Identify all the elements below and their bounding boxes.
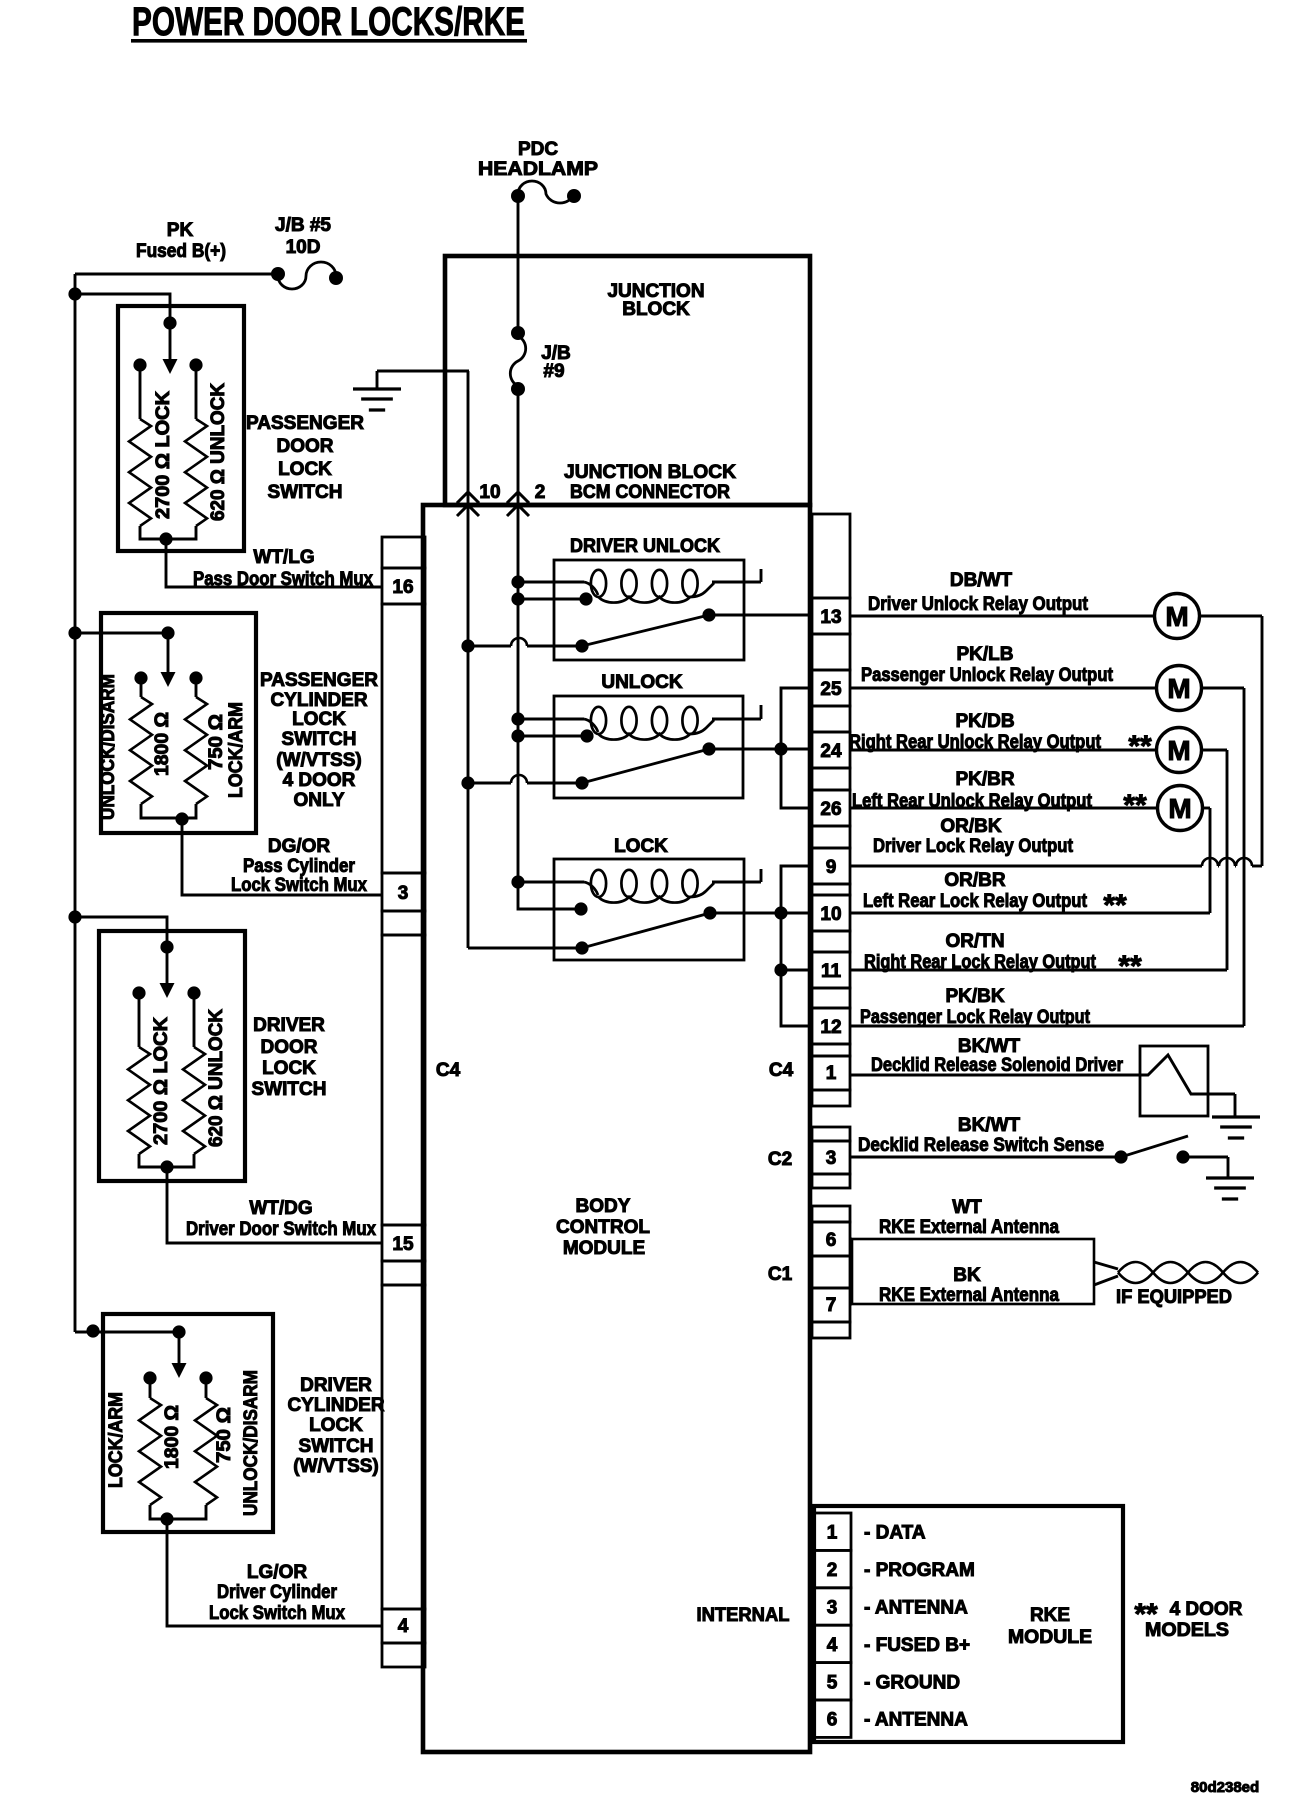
svg-text:10D: 10D: [286, 237, 321, 258]
svg-text:JUNCTION BLOCK: JUNCTION BLOCK: [564, 462, 736, 483]
svg-text:24: 24: [820, 741, 842, 762]
svg-text:CONTROL: CONTROL: [556, 1217, 650, 1238]
svg-text:PK/LB: PK/LB: [957, 644, 1014, 665]
svg-text:DB/WT: DB/WT: [950, 570, 1013, 591]
svg-text:**: **: [1128, 730, 1152, 763]
svg-text:Driver Door Switch Mux: Driver Door Switch Mux: [186, 1219, 376, 1240]
svg-text:DRIVER: DRIVER: [300, 1375, 372, 1396]
svg-text:CYLINDER: CYLINDER: [287, 1395, 384, 1416]
svg-text:LOCK: LOCK: [309, 1415, 363, 1436]
svg-text:3: 3: [398, 883, 409, 904]
svg-text:INTERNAL: INTERNAL: [697, 1605, 790, 1626]
svg-text:**: **: [1123, 789, 1147, 822]
svg-text:LOCK: LOCK: [262, 1058, 316, 1079]
svg-text:13: 13: [820, 607, 841, 628]
svg-text:WT/DG: WT/DG: [249, 1198, 312, 1219]
svg-text:25: 25: [820, 679, 842, 700]
svg-text:POWER DOOR LOCKS/RKE: POWER DOOR LOCKS/RKE: [132, 0, 525, 44]
svg-text:2: 2: [827, 1560, 838, 1581]
svg-text:620 Ω UNLOCK: 620 Ω UNLOCK: [208, 383, 229, 521]
svg-text:UNLOCK/DISARM: UNLOCK/DISARM: [98, 674, 119, 820]
svg-text:SWITCH: SWITCH: [299, 1436, 374, 1457]
svg-text:4: 4: [827, 1635, 838, 1656]
svg-text:DG/OR: DG/OR: [268, 836, 331, 857]
svg-text:Fused B(+): Fused B(+): [136, 241, 226, 262]
svg-text:M: M: [1167, 735, 1190, 766]
svg-text:12: 12: [820, 1017, 841, 1038]
svg-text:10: 10: [479, 482, 500, 503]
svg-text:PK/DB: PK/DB: [955, 711, 1014, 732]
svg-text:620 Ω UNLOCK: 620 Ω UNLOCK: [206, 1009, 227, 1147]
svg-text:J/B #5: J/B #5: [275, 215, 331, 236]
svg-text:- GROUND: - GROUND: [864, 1672, 960, 1693]
svg-text:WT: WT: [952, 1197, 982, 1218]
svg-text:RKE External Antenna: RKE External Antenna: [879, 1217, 1059, 1238]
svg-text:1800 Ω: 1800 Ω: [162, 1405, 183, 1469]
svg-text:SWITCH: SWITCH: [282, 729, 357, 750]
svg-text:4 DOOR: 4 DOOR: [283, 770, 356, 791]
svg-text:3: 3: [827, 1598, 838, 1619]
svg-text:- PROGRAM: - PROGRAM: [864, 1560, 975, 1581]
svg-text:BODY: BODY: [576, 1196, 631, 1217]
svg-text:Lock Switch Mux: Lock Switch Mux: [231, 875, 367, 896]
svg-text:M: M: [1168, 793, 1191, 824]
svg-text:Passenger Unlock Relay Output: Passenger Unlock Relay Output: [861, 665, 1114, 686]
svg-text:BK/WT: BK/WT: [958, 1036, 1021, 1057]
svg-text:6: 6: [827, 1710, 838, 1731]
svg-text:DOOR: DOOR: [261, 1037, 318, 1058]
svg-text:LG/OR: LG/OR: [247, 1562, 307, 1583]
svg-text:6: 6: [826, 1230, 837, 1251]
svg-text:1: 1: [827, 1523, 838, 1544]
svg-text:MODELS: MODELS: [1145, 1620, 1229, 1641]
svg-text:Pass Door Switch Mux: Pass Door Switch Mux: [193, 569, 373, 590]
svg-text:PK: PK: [167, 220, 194, 241]
svg-text:C2: C2: [768, 1149, 792, 1170]
svg-text:10: 10: [820, 904, 841, 925]
svg-text:LOCK/ARM: LOCK/ARM: [226, 702, 247, 798]
svg-text:2700 Ω LOCK: 2700 Ω LOCK: [153, 391, 174, 519]
svg-text:4: 4: [398, 1616, 409, 1637]
svg-text:DRIVER: DRIVER: [253, 1015, 325, 1036]
svg-text:HEADLAMP: HEADLAMP: [478, 159, 598, 180]
svg-text:Decklid Release Solenoid Drive: Decklid Release Solenoid Driver: [871, 1055, 1124, 1076]
svg-text:IF EQUIPPED: IF EQUIPPED: [1116, 1287, 1232, 1308]
svg-text:LOCK/ARM: LOCK/ARM: [106, 1392, 127, 1488]
svg-text:ONLY: ONLY: [293, 790, 344, 811]
svg-text:BK/WT: BK/WT: [958, 1115, 1021, 1136]
svg-text:11: 11: [821, 961, 842, 982]
svg-text:MODULE: MODULE: [1008, 1627, 1092, 1648]
svg-text:(W/VTSS): (W/VTSS): [293, 1456, 379, 1477]
svg-text:BLOCK: BLOCK: [622, 299, 690, 320]
svg-text:- ANTENNA: - ANTENNA: [864, 1598, 968, 1619]
svg-text:7: 7: [826, 1295, 837, 1316]
svg-text:MODULE: MODULE: [563, 1238, 645, 1259]
svg-text:3: 3: [826, 1148, 837, 1169]
svg-text:9: 9: [826, 857, 837, 878]
svg-text:OR/BR: OR/BR: [944, 870, 1006, 891]
svg-text:PASSENGER: PASSENGER: [260, 670, 378, 691]
svg-text:PASSENGER: PASSENGER: [246, 413, 364, 434]
svg-text:CYLINDER: CYLINDER: [270, 690, 367, 711]
svg-text:SWITCH: SWITCH: [268, 482, 343, 503]
svg-text:Driver Lock Relay Output: Driver Lock Relay Output: [873, 836, 1074, 857]
svg-text:750 Ω: 750 Ω: [206, 714, 227, 770]
svg-text:2700 Ω LOCK: 2700 Ω LOCK: [151, 1017, 172, 1145]
svg-text:LOCK: LOCK: [614, 836, 668, 857]
svg-text:5: 5: [827, 1672, 838, 1693]
svg-text:BCM CONNECTOR: BCM CONNECTOR: [570, 482, 730, 503]
svg-text:LOCK: LOCK: [278, 459, 332, 480]
svg-text:- ANTENNA: - ANTENNA: [864, 1710, 968, 1731]
svg-text:2: 2: [535, 482, 546, 503]
svg-text:Left Rear Lock Relay Output: Left Rear Lock Relay Output: [863, 891, 1088, 912]
svg-text:15: 15: [392, 1234, 414, 1255]
svg-text:RKE External Antenna: RKE External Antenna: [879, 1285, 1059, 1306]
svg-text:Pass Cylinder: Pass Cylinder: [243, 856, 356, 877]
svg-text:80d238ed: 80d238ed: [1191, 1779, 1259, 1796]
svg-text:4 DOOR: 4 DOOR: [1170, 1599, 1243, 1620]
svg-text:16: 16: [392, 577, 413, 598]
svg-text:LOCK: LOCK: [292, 709, 346, 730]
svg-text:SWITCH: SWITCH: [252, 1079, 327, 1100]
svg-text:- DATA: - DATA: [864, 1523, 926, 1544]
svg-text:M: M: [1167, 673, 1190, 704]
svg-text:**: **: [1118, 950, 1142, 983]
svg-text:#9: #9: [543, 361, 564, 382]
svg-text:Driver Unlock Relay Output: Driver Unlock Relay Output: [868, 594, 1089, 615]
svg-text:C1: C1: [768, 1264, 793, 1285]
svg-text:**: **: [1103, 889, 1127, 922]
svg-text:PDC: PDC: [518, 139, 558, 160]
svg-text:BK: BK: [953, 1265, 981, 1286]
svg-text:DRIVER UNLOCK: DRIVER UNLOCK: [570, 536, 720, 557]
svg-text:RKE: RKE: [1030, 1605, 1070, 1626]
svg-text:Lock Switch Mux: Lock Switch Mux: [209, 1603, 345, 1624]
svg-text:UNLOCK: UNLOCK: [601, 672, 683, 693]
svg-text:OR/BK: OR/BK: [940, 816, 1002, 837]
svg-text:PK/BR: PK/BR: [955, 769, 1014, 790]
svg-text:Driver Cylinder: Driver Cylinder: [217, 1582, 338, 1603]
svg-text:WT/LG: WT/LG: [253, 547, 314, 568]
svg-text:M: M: [1165, 601, 1188, 632]
svg-text:(W/VTSS): (W/VTSS): [276, 750, 362, 771]
svg-text:C4: C4: [769, 1060, 794, 1081]
svg-text:1: 1: [826, 1063, 837, 1084]
svg-text:26: 26: [820, 799, 841, 820]
svg-text:750 Ω: 750 Ω: [214, 1407, 235, 1463]
svg-text:1800 Ω: 1800 Ω: [152, 712, 173, 776]
svg-text:Decklid Release Switch Sense: Decklid Release Switch Sense: [858, 1135, 1104, 1156]
svg-text:DOOR: DOOR: [277, 436, 334, 457]
svg-text:OR/TN: OR/TN: [945, 931, 1004, 952]
svg-text:C4: C4: [436, 1060, 461, 1081]
svg-text:- FUSED B+: - FUSED B+: [864, 1635, 970, 1656]
svg-text:PK/BK: PK/BK: [945, 986, 1004, 1007]
svg-text:UNLOCK/DISARM: UNLOCK/DISARM: [241, 1370, 262, 1516]
